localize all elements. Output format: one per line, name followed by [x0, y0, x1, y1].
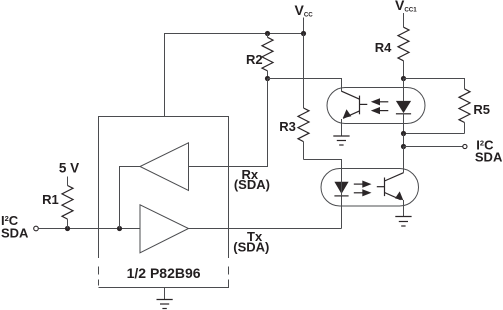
svg-text:1/2 P82B96: 1/2 P82B96 [127, 265, 201, 281]
node R2 bottom [265, 76, 270, 81]
LED D1 (in U2) [396, 101, 411, 114]
ground (P82B96) [157, 288, 173, 309]
resistor R2 [262, 34, 273, 79]
ground (Q1 emitter) [333, 136, 349, 145]
node SDA tap [401, 144, 406, 149]
node R5 bottom junction [401, 131, 406, 136]
buffer A1 (receiver, points left) [140, 143, 189, 191]
IC U1 1/2 P82B96 box [99, 117, 229, 288]
wire main line to SDA tap [403, 134, 405, 147]
node R1/SDA junction [65, 226, 70, 231]
svg-text:SDA: SDA [475, 150, 503, 165]
svg-text:5 V: 5 V [59, 161, 79, 176]
phototransistor Q2 (in U3) [377, 173, 404, 217]
light arrows (U3, pointing right) [354, 181, 372, 197]
wire Tx output line [189, 228, 342, 230]
wire buffer A1 output to SDA line [120, 167, 141, 229]
svg-text:(SDA): (SDA) [234, 177, 270, 192]
svg-text:R1: R1 [42, 192, 59, 207]
optocoupler U2 body [327, 88, 425, 124]
wire box Vcc pin to top rail [165, 34, 304, 117]
wire R4 node to R5 top [404, 79, 465, 89]
wire R3 to opto U3 LED anode [304, 160, 342, 182]
wire R5 bottom to main line [404, 133, 465, 135]
resistor R1 [62, 177, 73, 229]
resistor R4 [398, 27, 409, 78]
label Rx (SDA) [234, 167, 270, 192]
resistor R3 [298, 108, 309, 160]
terminal I2C SDA (left, open circle) [34, 226, 39, 231]
label I2C SDA (left) [1, 213, 29, 241]
wire SDA tap to terminal [404, 146, 463, 148]
wire SDA input line [38, 228, 140, 230]
buffer A2 (driver, points right) [140, 205, 189, 253]
optocoupler U3 body [321, 169, 419, 207]
light arrows (U2, pointing left) [371, 98, 389, 114]
label I2C SDA (right) [475, 137, 503, 164]
LED D2 (in U3) [334, 182, 348, 196]
terminal I2C SDA (right, open circle) [463, 144, 467, 148]
svg-text:(SDA): (SDA) [233, 239, 269, 254]
label Tx (SDA) [233, 229, 269, 254]
svg-text:R3: R3 [279, 119, 296, 134]
wire Vcc rail down to R3 [303, 34, 305, 109]
resistor R5 [459, 89, 470, 134]
svg-text:SDA: SDA [1, 225, 29, 240]
svg-text:R2: R2 [246, 52, 263, 67]
wire R2 node down to Rx line [189, 79, 268, 167]
wire SDA tap down to Q2 collector [403, 147, 405, 173]
wire main right line through LED D1 [403, 79, 405, 102]
svg-text:R4: R4 [375, 40, 392, 55]
phototransistor Q1 (in U2) [342, 91, 368, 136]
wire R2 node to opto U2 collector [268, 79, 342, 92]
node Vcc rail [301, 31, 306, 36]
wire opto U3 LED cathode down to Tx line [341, 196, 343, 229]
ground (Q2 emitter) [395, 217, 411, 227]
node R4 bottom [401, 76, 406, 81]
node buffer output junction [117, 226, 122, 231]
node R2 top [265, 31, 270, 36]
wire Vcc stub [303, 18, 305, 34]
svg-text:R5: R5 [473, 102, 490, 117]
wire Vcc1 stub [403, 13, 405, 27]
